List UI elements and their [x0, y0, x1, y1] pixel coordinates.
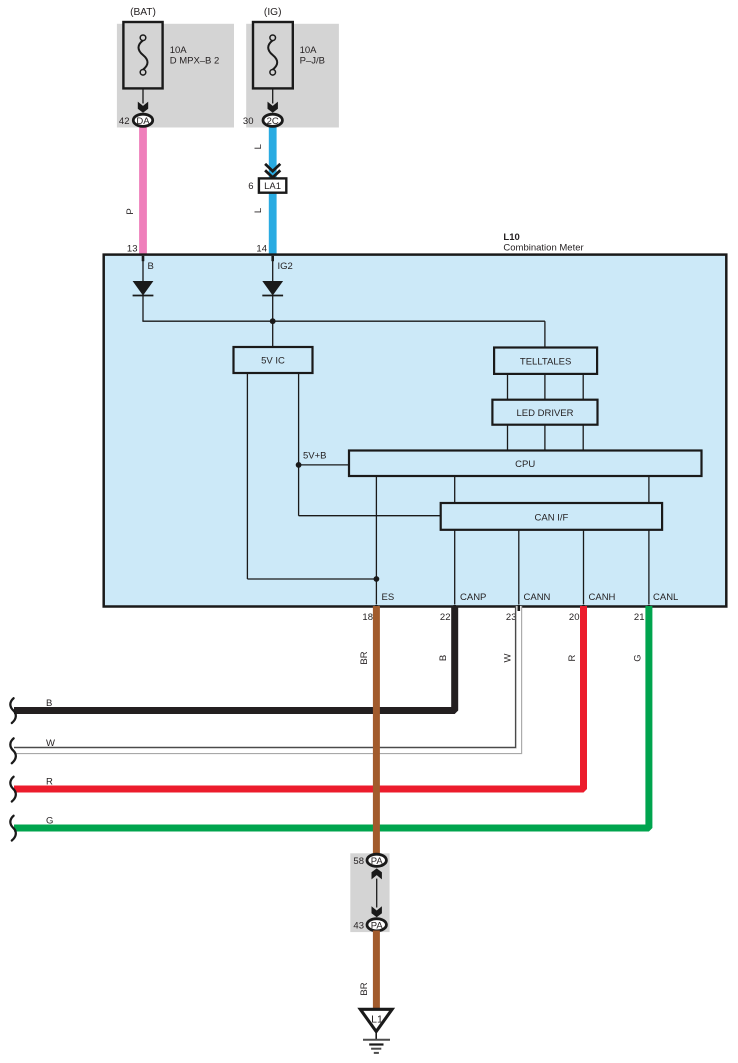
- wire B (black) CANP to harness: [14, 606, 455, 711]
- svg-text:B: B: [148, 261, 154, 272]
- wire fuse F1 to connector DA: [142, 88, 144, 103]
- ground bar 1: [363, 1039, 390, 1041]
- component L10 Combination Meter outline: [104, 255, 727, 607]
- wire CAN I/F to CANN pin: [518, 530, 520, 605]
- connector arrow into 2C: [268, 102, 278, 113]
- ground stem: [375, 1033, 377, 1040]
- svg-text:PA: PA: [371, 856, 384, 867]
- pin 22 tick: [453, 605, 456, 611]
- harness break squiggle R: [10, 777, 16, 802]
- wire power bus to TELLTALES: [544, 321, 546, 347]
- fuse F1 10A D MPX-B 2: [123, 22, 162, 88]
- junction dot ES: [374, 576, 380, 582]
- svg-text:CPU: CPU: [515, 459, 535, 470]
- ground bar 4: [374, 1052, 379, 1054]
- svg-text:BR: BR: [359, 651, 370, 664]
- wire TELLTALES-LED DRIVER link 2: [544, 374, 546, 400]
- svg-text:CANN: CANN: [524, 592, 551, 603]
- junction connector LA1 pin 6: [259, 178, 286, 192]
- wire 5V IC to ES junction: [247, 578, 376, 580]
- svg-text:43: 43: [353, 921, 364, 932]
- svg-text:21: 21: [634, 612, 645, 623]
- wire CAN I/F to CANP pin: [454, 530, 456, 605]
- wire W (white) CANN to harness core: [14, 606, 519, 751]
- svg-text:D MPX–B 2: D MPX–B 2: [170, 56, 220, 67]
- svg-text:(IG): (IG): [264, 7, 282, 18]
- connector PA pin 43: [367, 919, 386, 932]
- svg-text:10A: 10A: [300, 45, 318, 56]
- svg-text:IG2: IG2: [278, 261, 293, 272]
- svg-text:20: 20: [569, 612, 580, 623]
- junction dot power bus: [270, 318, 276, 324]
- wire R (red) CANH to harness: [14, 606, 584, 789]
- ground bar 3: [371, 1048, 381, 1050]
- svg-text:TELLTALES: TELLTALES: [520, 356, 571, 367]
- junction block J/B shaded box (IG fuse): [246, 24, 339, 128]
- wire pin 13 to diode D1: [142, 256, 144, 281]
- svg-text:(BAT): (BAT): [130, 7, 156, 18]
- svg-text:13: 13: [127, 244, 138, 255]
- wire between PA arrows: [376, 879, 378, 908]
- wire power bus horizontal: [142, 320, 545, 322]
- svg-text:L: L: [253, 208, 264, 213]
- block LED DRIVER: [492, 400, 597, 425]
- connector DA pin 42: [133, 114, 152, 127]
- svg-text:58: 58: [353, 856, 364, 867]
- wire BR (brown) ES to connector PA: [373, 606, 380, 855]
- svg-text:BR: BR: [359, 982, 370, 995]
- diode D1: [133, 281, 154, 296]
- connector PA shaded box: [350, 853, 389, 932]
- svg-text:W: W: [503, 653, 514, 662]
- harness break squiggle W: [10, 738, 16, 763]
- wire 5V+B to CPU: [299, 464, 349, 466]
- wire CPU-CAN I/F link left: [454, 476, 456, 503]
- fuse F2 10A P-J/B: [253, 22, 293, 88]
- svg-text:P–J/B: P–J/B: [300, 56, 325, 67]
- svg-text:DA: DA: [136, 116, 150, 127]
- block 5V IC: [234, 347, 313, 373]
- svg-text:5V IC: 5V IC: [261, 356, 285, 367]
- svg-text:CAN I/F: CAN I/F: [535, 513, 569, 524]
- connector PA pin 58: [367, 854, 386, 867]
- svg-text:R: R: [567, 654, 578, 661]
- connector arrow down (PA): [372, 906, 382, 917]
- svg-text:L1: L1: [371, 1013, 383, 1025]
- wire TELLTALES-LED DRIVER link 3: [582, 374, 584, 400]
- block CAN I/F: [441, 503, 662, 530]
- pin 14 tick: [271, 256, 274, 261]
- wire W (white) dark edge: [14, 606, 516, 747]
- wire CAN I/F to CANH pin: [583, 530, 585, 605]
- svg-text:18: 18: [362, 612, 373, 623]
- wire W (white) CANN to harness outline: [14, 606, 519, 751]
- svg-text:5V+B: 5V+B: [303, 451, 327, 462]
- svg-text:6: 6: [248, 181, 253, 192]
- svg-text:14: 14: [256, 244, 267, 255]
- ground bar 2: [369, 1043, 383, 1045]
- svg-text:P: P: [125, 208, 136, 214]
- svg-text:42: 42: [119, 116, 130, 127]
- wire G (green) CANL to harness: [14, 606, 649, 828]
- svg-text:CANH: CANH: [589, 592, 616, 603]
- svg-text:LED DRIVER: LED DRIVER: [516, 408, 573, 419]
- diode D2: [262, 281, 283, 296]
- svg-text:Combination Meter: Combination Meter: [503, 242, 583, 253]
- ground point L1 triangle: [360, 1009, 392, 1031]
- wire CPU to ES pin: [375, 476, 377, 605]
- block CPU: [349, 451, 702, 477]
- pin 21 tick: [648, 605, 651, 611]
- pin 13 tick: [142, 256, 145, 261]
- svg-text:2C: 2C: [267, 116, 279, 127]
- wire LED DRIVER-CPU link 2: [544, 425, 546, 451]
- svg-text:B: B: [438, 655, 449, 661]
- svg-text:W: W: [46, 738, 55, 749]
- connector arrow up (PA): [372, 868, 382, 879]
- svg-text:PA: PA: [371, 920, 384, 931]
- wire CPU-CAN I/F link right: [648, 476, 650, 503]
- wire diode D1 down: [142, 296, 144, 322]
- wire BR (brown) PA to ground: [373, 931, 380, 1009]
- wire LED DRIVER-CPU link 1: [507, 425, 509, 451]
- wire 5V IC left output down: [246, 373, 248, 579]
- wire fuse F2 to connector 2C: [272, 88, 274, 103]
- svg-text:22: 22: [440, 612, 451, 623]
- pin 23 tick: [518, 605, 521, 611]
- wire CAN I/F to CANL pin: [648, 530, 650, 605]
- junction block J/B shaded box (BAT fuse): [117, 24, 234, 128]
- svg-text:L: L: [253, 144, 264, 149]
- harness break squiggle G: [10, 816, 16, 841]
- wire 5V IC right output down: [298, 373, 300, 516]
- svg-text:30: 30: [243, 116, 254, 127]
- connector 2C pin 30: [263, 114, 282, 127]
- svg-text:G: G: [632, 654, 643, 661]
- svg-text:L10: L10: [503, 232, 519, 243]
- wire pin 14 to diode D2: [272, 256, 274, 281]
- wire diode D2 to 5V IC: [272, 296, 274, 348]
- wire TELLTALES-LED DRIVER link 1: [507, 374, 509, 400]
- junction dot 5V+B: [296, 462, 302, 468]
- harness break squiggle B: [10, 698, 16, 723]
- inline connector chevrons above LA1: [265, 164, 280, 178]
- svg-text:10A: 10A: [170, 45, 188, 56]
- pin 18 tick: [375, 605, 378, 611]
- svg-text:CANP: CANP: [460, 592, 486, 603]
- wire P (pink) pin DA to pin 13: [139, 127, 147, 255]
- svg-text:ES: ES: [382, 592, 395, 603]
- pin 20 tick: [582, 605, 585, 611]
- svg-text:R: R: [46, 776, 53, 787]
- wire LED DRIVER-CPU link 3: [582, 425, 584, 451]
- svg-text:CANL: CANL: [653, 592, 678, 603]
- svg-text:LA1: LA1: [264, 181, 281, 192]
- connector arrow into DA: [138, 102, 148, 113]
- wire L (blue) pin 2C to pin 14: [269, 127, 277, 255]
- block TELLTALES: [494, 348, 597, 374]
- wire 5V to CAN I/F: [299, 515, 441, 517]
- svg-text:G: G: [46, 815, 53, 826]
- svg-text:B: B: [46, 698, 52, 709]
